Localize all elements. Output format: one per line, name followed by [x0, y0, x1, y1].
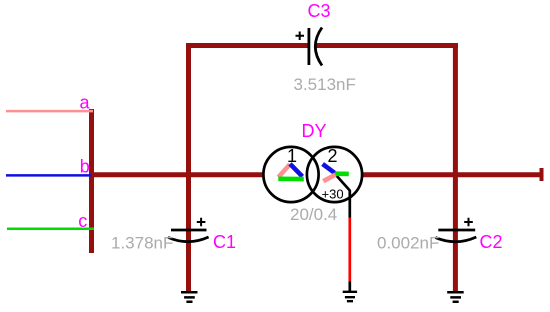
ground for C1: [181, 292, 198, 302]
svg-text:3.513nF: 3.513nF: [294, 75, 356, 94]
phase a line: [6, 110, 93, 113]
winding 1 delta symbol: blue side: [290, 164, 302, 177]
neutral lead diagonal from winding 2: [335, 174, 350, 191]
transformer T1 winding 2 circle: [307, 147, 362, 202]
wire: right vertical (top wire through main wire and C2 to ground): [453, 43, 458, 292]
svg-text:c: c: [78, 211, 87, 231]
svg-text:DY: DY: [302, 121, 327, 141]
svg-text:C2: C2: [480, 232, 503, 252]
transformer T1 winding 1 circle: [263, 147, 318, 202]
capacitor C1 curved plate: [168, 237, 209, 242]
svg-text:C1: C1: [213, 232, 236, 252]
svg-text:1: 1: [287, 146, 297, 166]
C2 plus sign: [464, 218, 473, 227]
neutral grounding wire red: [348, 218, 351, 282]
wire: main horizontal left (bus to transformer): [92, 172, 265, 177]
phase b line: [6, 174, 94, 177]
svg-text:2: 2: [327, 146, 337, 166]
neutral lead black vertical lower: [348, 282, 351, 293]
capacitor C2 plate: [438, 229, 475, 232]
wire: top horizontal left of C3: [186, 43, 308, 48]
ground for neutral: [343, 292, 357, 301]
winding 1 delta symbol: green base: [278, 177, 304, 182]
svg-text:+30: +30: [322, 187, 344, 202]
wire: left vertical (top wire through main wire and C1 to ground): [186, 43, 191, 292]
winding 2 star symbol: pink ray: [323, 175, 335, 182]
capacitor C3 plate: [307, 28, 310, 65]
C3 plus sign: [296, 32, 305, 41]
capacitor C3 curved plate: [315, 28, 322, 66]
phase c line: [7, 228, 94, 231]
winding 1 delta symbol: pink side: [278, 164, 289, 177]
wire: top horizontal right of C3: [315, 43, 458, 48]
neutral lead black vertical upper: [348, 190, 351, 218]
svg-text:b: b: [80, 157, 90, 177]
svg-text:C3: C3: [308, 1, 331, 21]
winding 2 star symbol: green ray: [335, 171, 349, 176]
ground for C2: [447, 292, 464, 302]
terminal stub right end: [540, 168, 544, 181]
svg-text:a: a: [80, 93, 91, 113]
svg-text:20/0.4: 20/0.4: [290, 205, 337, 224]
winding 2 star symbol: blue ray: [323, 164, 335, 173]
capacitor C1 plate: [171, 229, 207, 232]
capacitor C2 curved plate: [435, 237, 476, 242]
wire: main horizontal right (transformer to terminal): [362, 172, 540, 177]
bus bar B1: [89, 109, 94, 253]
C1 plus sign: [197, 218, 206, 227]
svg-text:1.378nF: 1.378nF: [111, 234, 173, 253]
svg-text:0.002nF: 0.002nF: [377, 234, 439, 253]
